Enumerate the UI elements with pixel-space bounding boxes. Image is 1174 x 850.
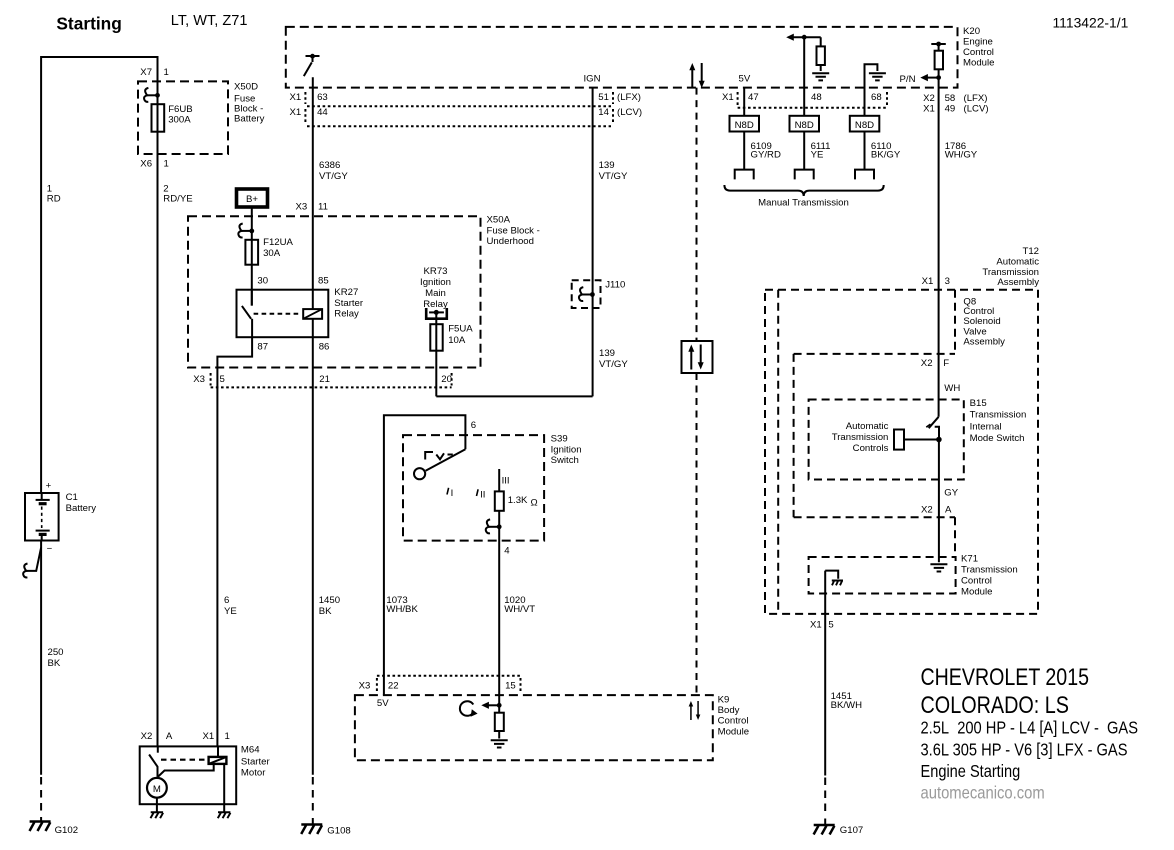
wire KR27 87 to M64 X1-1 [217,337,252,746]
svg-text:WH/BK: WH/BK [386,604,418,615]
svg-text:WH/GY: WH/GY [945,149,978,160]
svg-text:139: 139 [599,160,615,171]
svg-text:X1: X1 [923,104,935,115]
svg-text:30: 30 [257,275,268,286]
M64 motor [147,778,167,804]
svg-text:X1: X1 [722,92,734,103]
N8D switch 3 [850,116,901,180]
M64 solenoid contact switch [149,746,158,777]
svg-text:LT, WT, Z71: LT, WT, Z71 [171,12,248,29]
K71 Transmission Control Module box [809,554,1018,598]
svg-text:2.5L 200 HP - L4 [A] LCV - G: 2.5L 200 HP - L4 [A] LCV - GAS [921,718,1139,738]
BCM K9 box [355,694,749,760]
wire 1073 WH/BK label [386,595,418,615]
ground (ECM 68) [869,73,886,80]
svg-text:−: − [47,544,53,555]
svg-text:48: 48 [811,92,822,103]
svg-text:P/N: P/N [900,74,916,85]
wire: top feed bracket [41,57,157,493]
svg-text:5V: 5V [739,74,751,85]
svg-text:X3: X3 [193,374,205,385]
svg-text:G102: G102 [55,825,78,836]
svg-text:X50D: X50D [234,81,258,92]
svg-text:5: 5 [220,374,225,385]
ground G108 [301,777,351,837]
svg-text:F5UA: F5UA [448,323,473,334]
svg-text:RD: RD [47,194,61,205]
svg-text:3: 3 [945,276,950,287]
splice at S39 pin 4 [486,519,502,533]
M64 case grounds [151,804,231,818]
label 5V (ECM pin 47) [739,74,751,85]
T12 Automatic Transmission Assembly box [765,246,1039,614]
N8D switch 2 [790,116,831,180]
svg-text:1113422-1/1: 1113422-1/1 [1053,15,1129,31]
ground G107 [814,819,864,837]
label 1 RD [47,184,61,205]
svg-text:(LFX): (LFX) [964,93,988,104]
connector X6 pin 1 [140,158,169,169]
svg-text:A: A [945,505,952,516]
svg-text:(LFX): (LFX) [617,92,641,103]
label 139 VT/GY (lower) [599,348,628,370]
svg-text:Ignition: Ignition [420,277,451,288]
svg-text:X1: X1 [922,276,934,287]
svg-text:Assembly: Assembly [997,277,1039,288]
S39 resistor 1.3K [495,469,538,527]
svg-text:30A: 30A [263,248,281,259]
brace Manual Transmission [724,185,883,208]
BCM 5V label [377,698,389,709]
ECM serial-data arrows [689,63,704,88]
svg-text:139: 139 [599,348,615,359]
svg-text:Control: Control [963,47,994,58]
connector X7 pin 1 [140,67,169,78]
svg-text:X2: X2 [921,358,933,369]
fuse F12UA 30A [245,237,293,265]
svg-text:Underhood: Underhood [487,236,534,247]
svg-text:85: 85 [318,275,329,286]
svg-text:44: 44 [317,107,328,118]
ECM P/N feed bar [931,42,946,51]
M64 solenoid coil [158,746,227,804]
svg-text:Controls: Controls [853,443,889,454]
svg-text:WH: WH [944,383,960,394]
svg-text:COLORADO: LS: COLORADO: LS [921,692,1070,719]
svg-text:automecanico.com: automecanico.com [921,783,1045,803]
svg-text:1: 1 [164,67,169,78]
BCM logic circle arrow [460,701,478,717]
svg-text:Control: Control [718,716,749,727]
wire 1786 WH/GY (P/N) [939,69,978,417]
svg-text:Mode Switch: Mode Switch [970,433,1025,444]
svg-text:N8D: N8D [795,120,814,131]
svg-text:47: 47 [748,92,759,103]
svg-text:X2: X2 [923,93,935,104]
svg-text:III: III [502,475,510,486]
connector row X3 5 21 20 [193,373,452,387]
wire 1451 BK/WH (K71 X1-5 to G107) [825,571,862,815]
svg-text:Battery: Battery [234,113,265,124]
svg-text:F12UA: F12UA [263,237,293,248]
fuse block X50A box [188,215,540,368]
sheet number 1113422-1/1 [1053,15,1129,31]
svg-text:(LCV): (LCV) [617,107,642,118]
svg-text:5: 5 [828,620,833,631]
svg-text:Starter: Starter [334,298,364,309]
svg-text:B+: B+ [246,194,258,205]
svg-text:X2: X2 [141,731,153,742]
wire ECM pin 48 [803,37,805,116]
svg-text:6386: 6386 [319,160,340,171]
svg-text:G107: G107 [840,825,863,836]
N8D switch 1 [730,116,781,180]
serial data wire (dashed) [696,88,698,696]
wire ECM pin 47 [743,88,745,116]
svg-text:F6UB: F6UB [168,104,193,115]
S39 rotary switch [414,449,465,479]
P/N arrow [900,74,941,85]
svg-text:Relay: Relay [334,309,359,320]
svg-text:WH/VT: WH/VT [504,604,535,615]
svg-text:K20: K20 [963,26,980,37]
svg-text:YE: YE [811,149,824,160]
ECM internal switch (crank output) [304,54,320,76]
svg-text:X1: X1 [203,731,215,742]
S39 position marks I II III [447,475,510,500]
serial data junction box with arrows [682,341,713,373]
svg-text:BK/GY: BK/GY [871,149,901,160]
svg-text:51: 51 [598,92,609,103]
svg-text:X1: X1 [290,92,302,103]
wire F5UA to ignition feed junction [436,395,592,397]
svg-text:Internal: Internal [970,422,1002,433]
svg-text:(LCV): (LCV) [964,104,989,115]
BCM input arrow and resistor [481,695,504,738]
svg-text:58: 58 [945,93,956,104]
wire 1020 WH/VT (S39 pin 4 to BCM 15) [499,527,535,695]
wire ECM pin 68 to ground [865,64,878,116]
svg-text:68: 68 [871,92,882,103]
wire 139 VT/GY (IGN output) [593,88,628,397]
svg-text:VT/GY: VT/GY [599,359,628,370]
svg-text:BK: BK [48,658,61,669]
svg-text:21: 21 [319,374,330,385]
svg-text:X6: X6 [140,158,152,169]
connector J110 [572,280,626,309]
svg-text:T12: T12 [1022,246,1039,257]
svg-text:IGN: IGN [584,74,601,85]
automatic transmission controls connector [832,421,939,454]
wire KR27 86 to G108 [313,319,340,775]
svg-text:VT/GY: VT/GY [319,171,348,182]
svg-text:11: 11 [318,201,328,212]
svg-text:Module: Module [718,726,749,737]
Q8 X2 connector sub-box [794,354,955,517]
splice at F6UB input [144,88,160,102]
svg-text:X2: X2 [921,505,933,516]
svg-text:Control: Control [961,576,992,587]
svg-text:KR73: KR73 [424,266,448,277]
svg-text:S39: S39 [551,434,568,445]
vehicle info text block [921,664,1139,802]
svg-text:Manual Transmission: Manual Transmission [758,197,849,208]
svg-text:Module: Module [961,587,992,598]
connector row X2 58 (LFX) / X1 49 (LCV) [923,93,988,115]
ECM pin 48 feed arrow [786,34,821,41]
svg-text:Motor: Motor [241,768,266,779]
svg-text:5V: 5V [377,698,389,709]
fuse block X50D box [138,81,265,154]
ECM K20 box [286,26,995,88]
fuse F5UA 10A [430,312,473,396]
svg-text:Main: Main [425,288,446,299]
svg-text:K9: K9 [718,694,730,705]
connector X1 pin 3 (T12) [922,276,950,287]
connector X2 pin A [921,505,952,516]
BCM serial-data arrows [689,701,701,720]
connector row X1 63 / 51 (LFX) [290,92,641,106]
label IGN [584,74,601,85]
svg-text:YE: YE [224,606,237,617]
svg-text:1.3K: 1.3K [508,495,528,506]
svg-text:15: 15 [505,681,516,692]
svg-text:Ignition: Ignition [551,444,582,455]
connector X2 pin F [921,358,949,369]
relay KR73 Ignition Main Relay contact [420,266,451,319]
svg-text:K71: K71 [961,554,978,565]
svg-text:Module: Module [963,58,994,69]
splice at F12UA input [238,224,254,238]
connector X1 pin 5 (T12) [810,620,834,631]
svg-text:Starting: Starting [56,14,121,34]
svg-text:1450: 1450 [319,595,340,606]
svg-text:G108: G108 [327,826,350,837]
svg-text:X1: X1 [290,107,302,118]
svg-text:63: 63 [317,92,328,103]
svg-text:Automatic: Automatic [846,421,889,432]
wire 250 BK battery negative [41,541,63,815]
svg-text:6: 6 [224,595,229,606]
svg-text:N8D: N8D [855,120,874,131]
svg-text:BK/WH: BK/WH [831,700,863,711]
svg-text:CHEVROLET 2015: CHEVROLET 2015 [921,664,1090,691]
fuse F6UB 300A [152,104,193,132]
svg-text:3.6L 305 HP - V6 [3] LFX - GAS: 3.6L 305 HP - V6 [3] LFX - GAS [921,739,1128,759]
wire B+ to KR27 pin 30 [251,207,253,306]
starter motor M64 box [140,745,271,805]
svg-text:KR27: KR27 [334,287,358,298]
ground G102 [29,817,78,836]
svg-text:GY: GY [944,487,958,498]
svg-text:14: 14 [598,107,609,118]
connector X3 pin 11 [296,201,328,212]
svg-text:X3: X3 [359,681,371,692]
ground (B15 GY in K71) [930,564,947,571]
relay KR27 Starter Relay [237,287,364,337]
svg-text:Switch: Switch [551,455,579,466]
svg-text:X3: X3 [296,201,308,212]
svg-text:Fuse Block -: Fuse Block - [487,225,540,236]
svg-text:M: M [153,784,161,795]
ECM P/N resistor [935,51,943,70]
connector row X1 44 / 14 (LCV) [290,107,643,126]
svg-text:F: F [943,358,949,369]
svg-text:Starter: Starter [241,756,271,767]
svg-text:X7: X7 [140,67,152,78]
svg-text:X50A: X50A [487,215,511,226]
svg-text:Body: Body [718,705,740,716]
ECM pin 48 pull-up resistor [817,37,825,71]
Q8 Control Solenoid Valve Assembly boundary [778,290,1005,614]
svg-text:A: A [166,731,173,742]
svg-text:1: 1 [164,158,169,169]
wire GY (B15 to ground) [939,440,959,563]
svg-text:1: 1 [225,731,230,742]
svg-text:C1: C1 [66,492,78,503]
splice on battery negative [23,548,41,578]
svg-text:22: 22 [388,681,399,692]
connector row X1 47 48 68 [722,92,887,108]
svg-text:4: 4 [504,546,510,557]
svg-text:+: + [46,481,52,492]
svg-text:J110: J110 [605,280,625,291]
svg-text:Battery: Battery [66,503,97,514]
svg-text:49: 49 [945,104,956,115]
svg-text:6: 6 [471,420,476,431]
svg-text:Assembly: Assembly [963,337,1005,348]
svg-text:300A: 300A [168,115,191,126]
B15 mode switch [926,417,941,443]
B15 Transmission Internal Mode Switch box [809,398,1027,480]
label 2 RD/YE [163,184,192,205]
svg-text:II: II [480,489,485,500]
svg-text:Engine: Engine [963,37,993,48]
svg-text:10A: 10A [448,335,466,346]
svg-text:VT/GY: VT/GY [599,171,628,182]
connector row X3 22 15 (BCM) [359,676,521,692]
ground (BCM resistor) [491,740,508,747]
svg-text:87: 87 [257,342,268,353]
wire 6386 VT/GY (ECM to KR27 pin 85) [313,77,349,309]
K71 case ground [825,571,843,586]
wire RD/YE through X50D [157,81,159,746]
svg-text:GY/RD: GY/RD [751,149,781,160]
svg-text:Transmission: Transmission [970,410,1027,421]
svg-text:I: I [451,488,454,499]
svg-text:Ω: Ω [531,498,538,509]
relay KR27 pins 87/86 labels [257,342,329,353]
svg-text:Transmission: Transmission [832,432,889,443]
svg-text:250: 250 [48,647,64,658]
svg-text:86: 86 [319,342,330,353]
svg-text:Transmission: Transmission [961,565,1018,576]
connector X2 A / X1 1 (M64) [141,731,230,742]
ground (ECM 48 resistor) [812,73,829,80]
subtitle LT, WT, Z71 [171,12,248,29]
battery C1 [25,481,96,555]
svg-text:X1: X1 [810,620,822,631]
svg-text:20: 20 [441,374,452,385]
svg-text:Engine Starting: Engine Starting [921,761,1021,781]
svg-text:BK: BK [319,606,332,617]
svg-text:N8D: N8D [735,120,754,131]
S39 ignition switch feed elbow [384,415,476,695]
S39 Ignition Switch box [403,434,582,541]
svg-text:RD/YE: RD/YE [163,194,192,205]
wire WH [944,383,960,394]
svg-text:M64: M64 [241,745,260,756]
relay KR27 pins 30/85 labels [257,275,328,286]
B+ symbol [237,189,268,207]
title Starting [56,14,121,34]
svg-text:B15: B15 [970,398,987,409]
